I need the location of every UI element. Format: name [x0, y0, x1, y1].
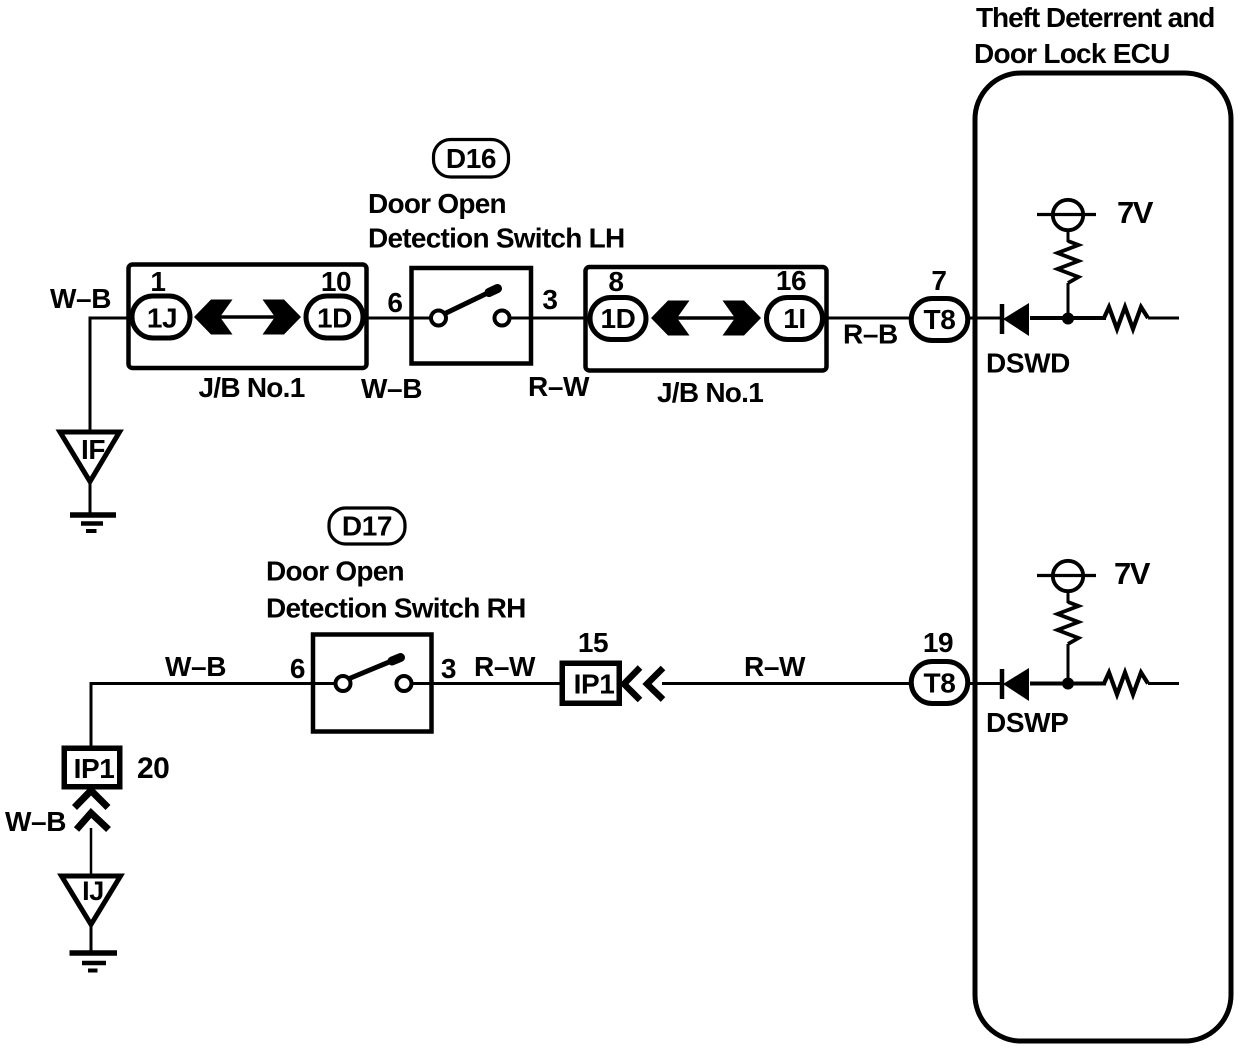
- connector label D17: [329, 508, 405, 544]
- splice chevrons below IP1 (pointing up): [75, 791, 109, 830]
- wire IF to ground: [89, 483, 92, 513]
- connector oval 1J: [132, 296, 190, 338]
- svg-text:IP1: IP1: [74, 753, 115, 784]
- wire switch LH contact to J/B No.1 right block: [509, 317, 590, 320]
- svg-text:IJ: IJ: [82, 876, 104, 906]
- label Door Open Detection Switch RH: [266, 556, 526, 624]
- wire 7V source to resistor R3 (row 2): [1067, 591, 1070, 603]
- ground (row 1 left): [70, 515, 116, 531]
- svg-text:20: 20: [137, 752, 169, 785]
- resistor R1 pull-up vertical (row 1): [1058, 241, 1079, 283]
- wire diode DSWD to resistor R2 through junction: [1030, 316, 1106, 320]
- label Door Open Detection Switch LH: [368, 188, 624, 254]
- wire drop to connector IP1 pin 20: [90, 682, 93, 746]
- svg-text:Detection Switch LH: Detection Switch LH: [368, 223, 624, 254]
- ECU U1 box (Theft Deterrent and Door Lock ECU): [975, 73, 1231, 1041]
- svg-text:1: 1: [150, 266, 165, 297]
- svg-text:R–W: R–W: [744, 651, 806, 682]
- svg-text:8: 8: [608, 266, 623, 297]
- connector box IP1 (pin 20, bottom left): [64, 748, 120, 787]
- svg-text:1I: 1I: [783, 303, 806, 334]
- splice arrows inside J/B No.1 (row 1 right): [651, 301, 761, 336]
- svg-text:6: 6: [290, 653, 305, 684]
- connector oval T8 (pin 19): [911, 662, 968, 704]
- svg-text:6: 6: [387, 287, 402, 318]
- svg-text:7V: 7V: [1114, 556, 1151, 591]
- svg-text:15: 15: [578, 627, 608, 658]
- wire resistor R4 to open end (row 2): [1148, 682, 1179, 685]
- svg-text:W–B: W–B: [50, 283, 111, 314]
- svg-text:R–W: R–W: [528, 371, 590, 402]
- svg-text:19: 19: [923, 627, 953, 658]
- svg-text:T8: T8: [924, 304, 956, 335]
- svg-text:3: 3: [441, 653, 456, 684]
- connector oval 1D (pin 8): [590, 298, 646, 340]
- svg-text:16: 16: [776, 265, 806, 296]
- wire chevrons to connector T8 (R-W, row 2): [662, 682, 910, 685]
- svg-text:IF: IF: [81, 434, 105, 465]
- svg-text:R–W: R–W: [474, 651, 536, 682]
- svg-text:DSWP: DSWP: [986, 707, 1068, 738]
- junction block J/B No.1 box (row 1 right): [586, 267, 827, 371]
- svg-text:D17: D17: [342, 511, 392, 542]
- svg-text:W–B: W–B: [5, 806, 66, 837]
- resistor R3 pull-up vertical (row 2): [1058, 602, 1079, 644]
- connector box IP1 (pin 15, row 2): [562, 663, 619, 703]
- svg-text:J/B No.1: J/B No.1: [657, 377, 763, 408]
- junction block J/B No.1 box (row 1 left): [129, 265, 367, 369]
- wire shield IJ to ground: [90, 925, 93, 951]
- wire oval 1D to switch LH contact: [365, 317, 433, 320]
- svg-text:7V: 7V: [1117, 195, 1154, 230]
- 7V source symbol (row 1): [1037, 200, 1096, 230]
- connector oval 1I (pin 16): [767, 298, 823, 340]
- connector oval T8 (pin 7): [911, 299, 968, 341]
- svg-text:Door Lock ECU: Door Lock ECU: [974, 38, 1170, 69]
- shield triangle IJ: [62, 876, 121, 925]
- switch box D16 Door Open Detection Switch LH: [412, 268, 532, 364]
- wire resistor R2 to open end (row 1): [1148, 317, 1179, 320]
- wire 7V source to resistor R1 (row 1): [1067, 230, 1070, 242]
- svg-text:D16: D16: [446, 143, 496, 174]
- svg-text:J/B No.1: J/B No.1: [198, 372, 304, 403]
- wire chevrons to shield IJ: [90, 828, 93, 875]
- resistor R2 horizontal (row 1): [1104, 307, 1148, 329]
- 7V source symbol (row 2): [1037, 561, 1096, 591]
- node junction (row 1): [1062, 313, 1074, 325]
- svg-text:DSWD: DSWD: [986, 348, 1070, 379]
- wire oval 1I to connector T8 (R-B): [825, 317, 910, 320]
- connector label D16: [434, 140, 509, 178]
- svg-text:T8: T8: [924, 668, 956, 699]
- svg-text:10: 10: [321, 266, 351, 297]
- svg-text:1J: 1J: [147, 303, 177, 334]
- switch S1 contacts and blade (LH): [431, 289, 510, 326]
- svg-text:W–B: W–B: [361, 373, 422, 404]
- svg-text:Door Open: Door Open: [266, 556, 404, 587]
- shield triangle IF: [60, 432, 120, 482]
- wire junction to pull-up resistor R1 (row 1): [1067, 283, 1070, 318]
- connector oval 1D (pin 10): [306, 296, 363, 338]
- resistor R4 horizontal (row 2): [1104, 673, 1148, 695]
- svg-text:1D: 1D: [601, 303, 636, 334]
- svg-text:R–B: R–B: [843, 319, 898, 350]
- switch S2 contacts and blade (RH): [336, 658, 412, 692]
- wire T8 into ECU (row 1): [970, 317, 1002, 320]
- svg-text:7: 7: [931, 265, 946, 296]
- wire W-B node to J/B No.1 (row 1 left stub): [90, 317, 131, 320]
- splice chevrons at IP1 (row 2): [624, 668, 663, 701]
- wire W-B long run (row 2 left): [91, 682, 335, 685]
- wire T8 into ECU (row 2): [970, 682, 1002, 685]
- diode DSWP: [1002, 668, 1029, 701]
- wire junction to pull-up resistor R3 (row 2): [1067, 644, 1070, 684]
- ECU title: Theft Deterrent and Door Lock ECU: [974, 2, 1214, 69]
- wire drop to shield IF (row 1): [89, 317, 92, 431]
- svg-text:1D: 1D: [317, 303, 352, 334]
- svg-text:IP1: IP1: [574, 669, 615, 700]
- svg-text:Theft Deterrent and: Theft Deterrent and: [976, 2, 1214, 33]
- svg-text:Detection Switch RH: Detection Switch RH: [266, 593, 526, 624]
- node junction (row 2): [1062, 678, 1074, 690]
- diode DSWD: [1002, 303, 1029, 336]
- svg-text:W–B: W–B: [165, 651, 226, 682]
- wire diode DSWP to resistor R4 through junction: [1030, 682, 1106, 686]
- splice arrows inside J/B No.1 (row 1 left): [194, 300, 301, 335]
- svg-text:3: 3: [542, 284, 557, 315]
- switch box D17 Door Open Detection Switch RH: [313, 635, 432, 732]
- ground (bottom left): [70, 953, 118, 971]
- wire switch RH contact to connector IP1 pin 15: [411, 682, 560, 685]
- svg-text:Door Open: Door Open: [368, 188, 506, 219]
